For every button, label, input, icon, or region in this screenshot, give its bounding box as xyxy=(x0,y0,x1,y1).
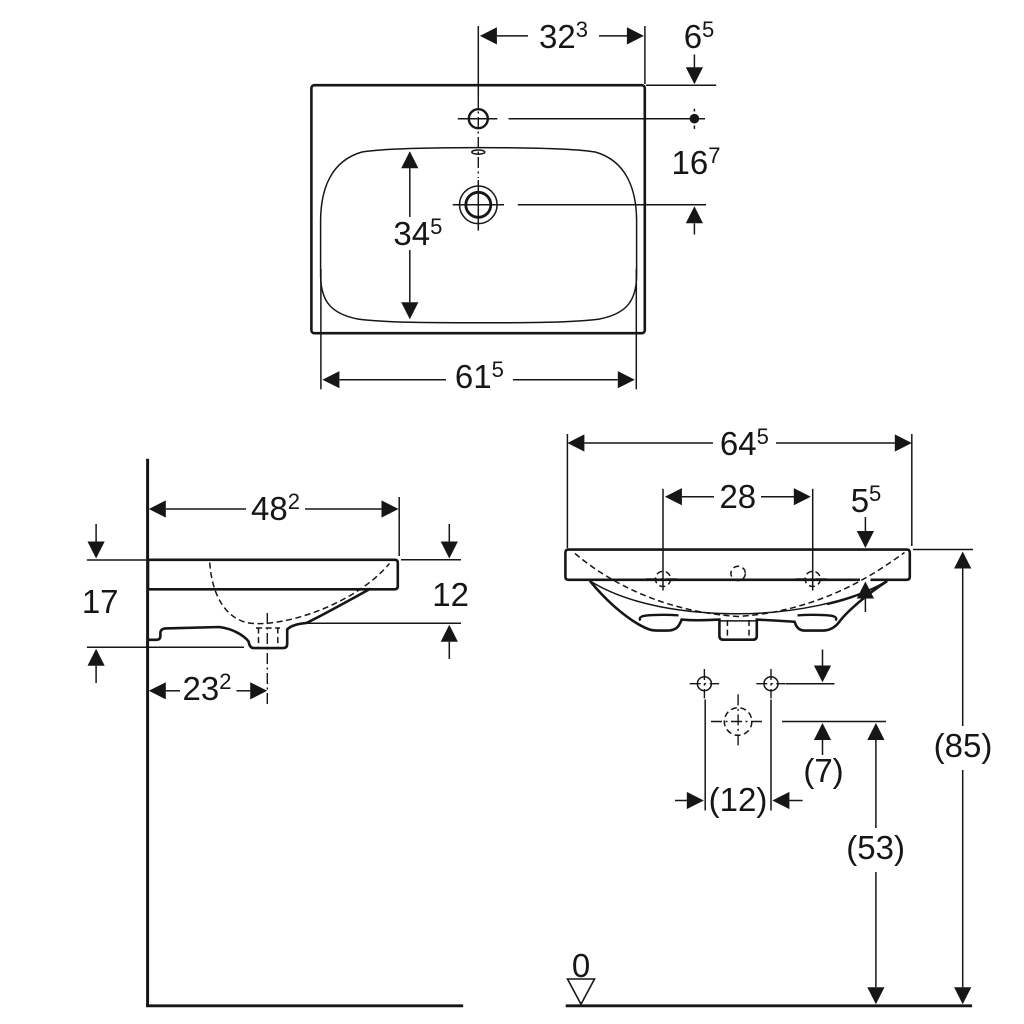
right tap hole dashed (front view) xyxy=(796,571,830,586)
bowl underside outline with feet and trap (front view) xyxy=(590,581,887,640)
washbasin deck slab (front view) xyxy=(565,550,909,580)
svg-text:(85): (85) xyxy=(934,727,993,764)
dimension 6.5 vertical (top edge down to faucet axis) xyxy=(509,17,717,129)
visible inner rim thin curve (front view) xyxy=(590,581,887,614)
dimension 17 vertical (front edge to trap bottom) xyxy=(82,524,244,683)
vertical centerline through faucet and drain xyxy=(477,97,479,178)
floor line left segment xyxy=(146,1004,463,1007)
svg-text:28: 28 xyxy=(719,478,756,515)
soap recess tongue left xyxy=(640,615,679,621)
dimension 48.2 horizontal (depth) xyxy=(149,489,399,556)
siphon outlet dashed circle xyxy=(711,694,765,748)
dimension (12) horizontal (anchor spacing) xyxy=(675,700,803,819)
svg-text:17: 17 xyxy=(82,583,119,620)
soap recess tongue right xyxy=(798,615,837,621)
hidden inner basin rim dashed (front view) xyxy=(575,553,905,617)
washbasin deck slab (side view) xyxy=(148,560,398,590)
inner basin outline (top view) xyxy=(321,148,637,323)
dimension (85) vertical (deck top to floor) xyxy=(913,550,992,1005)
dimension 23.2 horizontal (wall to drain axis) xyxy=(149,613,267,707)
dimension 16.7 vertical (faucet axis down to drain axis) xyxy=(518,143,721,235)
gap in slab bottom edge for arrow xyxy=(860,578,871,583)
dimension 5.5 vertical (deck apron height) xyxy=(851,481,882,612)
overflow slot ellipse xyxy=(472,150,485,154)
wall anchor crosshair right xyxy=(756,669,785,698)
middle tap hole dashed (front view) xyxy=(731,566,745,580)
left tap hole dashed (front view) xyxy=(646,571,680,586)
svg-text:12: 12 xyxy=(432,576,469,613)
datum zero marker xyxy=(568,947,595,1004)
drain pipe hidden lines in trap (side view) xyxy=(256,628,280,648)
floor line right segment xyxy=(566,1004,972,1007)
drain hole xyxy=(453,180,504,231)
svg-text:(53): (53) xyxy=(846,829,905,866)
svg-text:(7): (7) xyxy=(803,752,843,789)
basin underside profile with drain trap (side view) xyxy=(149,589,371,649)
dimension 34.5 vertical (basin depth inside) xyxy=(393,151,442,319)
wall line xyxy=(146,459,149,1007)
dimension 64.5 horizontal (total width) xyxy=(567,424,911,548)
dimension 28 horizontal (tap hole spacing) xyxy=(663,478,813,591)
faucet hole xyxy=(458,109,498,128)
svg-text:(12): (12) xyxy=(709,781,768,818)
hidden bowl contour dashed (side view) xyxy=(210,563,390,624)
dimension 32.3 horizontal (faucet to right edge) xyxy=(478,17,645,97)
washbasin outer rim (top view) xyxy=(311,85,644,333)
dimension (7) vertical (anchor line to siphon axis) xyxy=(782,650,886,790)
dimension 12 vertical (deck top to basin bottom edge) xyxy=(307,524,469,659)
dimension (53) vertical (siphon axis to floor) xyxy=(846,723,905,1004)
dimension 61.5 horizontal (basin width) xyxy=(321,269,636,395)
wall anchor crosshair left xyxy=(690,669,719,698)
